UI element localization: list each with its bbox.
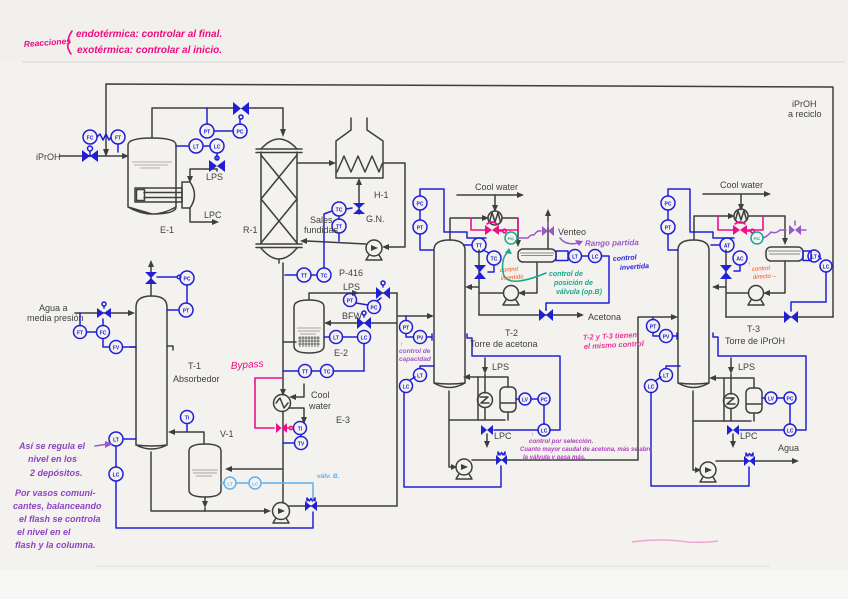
svg-text:Rango partida: Rango partida (585, 238, 639, 248)
svg-text:G.N.: G.N. (366, 214, 385, 224)
svg-text:PC: PC (184, 277, 191, 283)
instrument PT T-3 feed (647, 317, 660, 333)
pump P-416 (366, 240, 382, 260)
svg-text:Cool water: Cool water (720, 180, 763, 190)
instrument PT T-2 top (413, 210, 427, 234)
svg-text:PV: PV (417, 336, 424, 342)
wire: E-1 vapor to R-1 (152, 108, 286, 138)
instrument PT T-1 (167, 303, 193, 317)
instrument TC T-2 reflux (487, 251, 501, 272)
svg-text:H-1: H-1 (374, 190, 389, 200)
svg-text:capacidad: capacidad (399, 356, 432, 363)
svg-text:LPS: LPS (492, 362, 509, 372)
instrument PC T-2 pot (538, 393, 550, 424)
note control de capacidad (399, 342, 432, 363)
instrument LC E-2 (343, 331, 371, 372)
valve LPC T-3 (727, 425, 739, 435)
svg-text:TC: TC (336, 208, 343, 214)
svg-text:TC: TC (324, 370, 331, 376)
wire: condenser bypass T-2 (471, 218, 518, 230)
svg-text:E-1: E-1 (160, 225, 174, 235)
svg-text:PIC: PIC (508, 236, 515, 241)
svg-text:LC: LC (252, 482, 259, 487)
svg-text:flash y la columna.: flash y la columna. (15, 540, 96, 550)
furnace H-1 (336, 118, 383, 178)
svg-text:LPC: LPC (740, 431, 758, 441)
instrument PC T-1 (180, 271, 194, 303)
wire: T-1 overhead vent (148, 260, 154, 296)
svg-text:LC: LC (592, 255, 599, 261)
wire: iPrOH feed line (60, 153, 129, 159)
wire: V-1 pump discharge riser / T-2 feed (288, 293, 434, 506)
wire: T-3 drum to reflux pump (763, 261, 785, 296)
instrument LT flash aux (224, 477, 236, 489)
wire: condenser to reflux drum T-2 (502, 218, 521, 247)
svg-text:LPS: LPS (206, 172, 223, 182)
wire: T-2 level to bottoms valve (404, 392, 501, 487)
svg-text:Cool: Cool (311, 390, 330, 400)
wire: V-1 vapor to T-1 (168, 429, 204, 444)
svg-text:V-1: V-1 (220, 429, 234, 439)
instrument LC E-1 (203, 139, 224, 157)
instrument TT G.N. (332, 216, 346, 241)
instrument LC T-3 bottom (645, 377, 662, 393)
svg-text:Venteo: Venteo (558, 227, 586, 237)
valve venteo T-2 (542, 222, 554, 236)
svg-text:TT: TT (301, 274, 307, 280)
valve G.N. (353, 203, 365, 214)
valve LPS E-1 (209, 156, 225, 172)
note reacciones header (23, 31, 72, 54)
pump V-1 bottoms (273, 503, 290, 524)
svg-text:Cuanto mayor caudal de acetona: Cuanto mayor caudal de acetona, más se a… (520, 447, 653, 453)
svg-text:PT: PT (650, 325, 656, 331)
wire: T-3 overhead to condenser (694, 213, 735, 240)
reflux drum T-3 (766, 247, 803, 261)
note endotermica (76, 29, 222, 40)
pump T-2 bottoms (456, 459, 472, 479)
svg-text:fundidas: fundidas (304, 225, 339, 235)
flash drum V-1 (189, 444, 221, 497)
note por vasos comunicantes (13, 488, 102, 550)
wire: T-2 overhead to condenser (450, 215, 489, 240)
wire: cool water T-2 (457, 192, 524, 212)
wire: H-1 outlet to salt pump (382, 163, 405, 250)
instrument FC feed (83, 130, 97, 144)
instrument PIC split-range T-2 (505, 232, 517, 244)
instrument FC agua (97, 319, 110, 347)
wire: G.N. fuel line (356, 178, 362, 214)
condenser T-3 (734, 209, 748, 223)
column T-1 (130, 296, 173, 449)
svg-text:R-1: R-1 (243, 225, 258, 235)
instrument LT T-3 bottom (660, 366, 681, 382)
svg-text:Acetona: Acetona (588, 312, 621, 322)
valve venteo T-3 (789, 221, 806, 235)
svg-text:Torre de iPrOH: Torre de iPrOH (725, 336, 785, 346)
svg-text:TT: TT (476, 244, 482, 250)
valve T-3 reflux (720, 265, 732, 279)
valve agua feed (97, 302, 111, 318)
svg-text:PC: PC (237, 130, 244, 136)
instrument PC E-1 (233, 119, 247, 138)
svg-text:válv. B.: válv. B. (317, 473, 340, 480)
note control directo T-3 (748, 262, 777, 281)
svg-text:control de: control de (549, 271, 583, 278)
svg-text:LT: LT (417, 374, 423, 380)
valve iPrOH feed (82, 146, 98, 162)
wire: T-3 bottoms to pump (693, 421, 701, 473)
svg-text:Agua: Agua (778, 443, 799, 453)
svg-text:LT: LT (113, 438, 119, 444)
svg-text:P-416: P-416 (339, 268, 363, 278)
instrument TT R-1 bottoms (285, 268, 311, 282)
wire: LPC from T-2 reboiler (484, 434, 490, 448)
wire: T-1 bottoms to pump (151, 452, 271, 514)
svg-text:Bypass: Bypass (230, 359, 263, 372)
valve flash bottoms (M) (305, 498, 317, 511)
svg-text:TT: TT (302, 370, 308, 376)
instrument PC T-2 top (413, 196, 427, 210)
reboiler T-3 (724, 394, 739, 409)
instrument FV agua (110, 341, 137, 354)
svg-text:T-2: T-2 (505, 328, 518, 338)
svg-text:FV: FV (113, 346, 120, 352)
column T-3 (678, 240, 709, 388)
instrument LC T-2 lpc (494, 424, 550, 436)
instrument LC T-2 bottom (400, 377, 416, 393)
wire: T-1 level to flash valve (116, 481, 313, 528)
note rango partida (560, 238, 639, 248)
valve T-2 bottoms (M) (496, 452, 507, 465)
wire: signal to venteo valve T-2 (517, 231, 541, 238)
svg-text:LPS: LPS (343, 282, 360, 292)
instrument AC T-3 reflux (733, 251, 747, 271)
svg-text:FT: FT (77, 331, 83, 337)
instrument TI E-3 out (294, 422, 307, 435)
instrument LV T-3 pot (762, 392, 784, 404)
svg-text:Así se regula el: Así se regula el (18, 441, 86, 451)
svg-text:iPrOH: iPrOH (792, 99, 817, 109)
svg-text:LT: LT (227, 482, 232, 487)
svg-text:LT: LT (333, 336, 339, 342)
wire: T-3 drum level (791, 251, 826, 311)
instrument LT E-2 (324, 331, 343, 344)
reflux pump T-2 (503, 286, 519, 306)
svg-text:Por vasos comuni-: Por vasos comuni- (15, 488, 96, 498)
wire: LPS from E-2 (309, 290, 397, 300)
wire: T-2 bottoms to pump (449, 420, 457, 470)
svg-text:TC: TC (321, 274, 328, 280)
instrument TC R-1 bottoms (311, 268, 331, 282)
svg-text:Sales: Sales (310, 215, 333, 225)
svg-text:↑: ↑ (748, 262, 751, 268)
valve LPS E-2 (376, 281, 390, 299)
instrument PT E-1 (200, 108, 233, 138)
wire: signal to venteo valve T-3 (763, 230, 786, 238)
pink smudge bottom (632, 540, 718, 542)
wire: acetona product line (479, 312, 584, 318)
wire: agua product line (716, 458, 799, 464)
svg-text:LC: LC (648, 385, 655, 391)
valve T-2 reflux (474, 265, 486, 279)
instrument PC T-3 top (661, 196, 675, 210)
wire: T-3 pressure control to condenser bypass valve (668, 189, 734, 250)
svg-text:E-3: E-3 (336, 415, 350, 425)
svg-text:LT: LT (572, 255, 578, 261)
svg-text:control de: control de (399, 348, 431, 355)
instrument LV T-2 pot (516, 393, 538, 405)
svg-text:LT: LT (663, 374, 669, 380)
svg-text:↑: ↑ (496, 263, 499, 269)
instrument LT T-2 drum (569, 250, 582, 263)
svg-text:PC: PC (541, 398, 548, 404)
valve iPrOH recycle (784, 311, 798, 323)
wire: R-1 to H-1 (297, 160, 336, 166)
svg-text:la válvula y pasa más.: la válvula y pasa más. (523, 455, 586, 461)
scan fold line bottom (95, 565, 770, 567)
wire: E-2 process stub (283, 341, 296, 343)
instrument TT E-2 loop (299, 365, 312, 378)
instrument TC G.N. (332, 202, 352, 216)
instrument LC T-3 lpc (740, 424, 796, 436)
instrument PT T-2 feed (400, 316, 413, 334)
instrument AT T-3 reflux (711, 238, 734, 252)
svg-text:LV: LV (522, 398, 529, 404)
wire: T-2 reflux and product riser (465, 250, 503, 315)
wire: T-3 level to bottoms valve (651, 393, 749, 487)
wire: R-1 bottoms to E-2/E-3/V-1 (225, 263, 286, 503)
svg-text:PT: PT (347, 299, 353, 305)
svg-text:PT: PT (417, 226, 423, 232)
wire: LPC condensate from E-1 heater (190, 208, 219, 225)
svg-text:exotérmica: controlar al inici: exotérmica: controlar al inicio. (77, 45, 222, 56)
heat exchanger E-3 (274, 395, 291, 412)
wire: condenser bypass T-3 (718, 216, 763, 230)
reboiler T-2 (478, 393, 493, 408)
svg-text:posición de: posición de (553, 280, 593, 287)
pump T-3 bottoms (700, 462, 716, 482)
svg-text:Torre de acetona: Torre de acetona (470, 339, 538, 349)
valve BFW (357, 311, 371, 329)
svg-text:T-1: T-1 (188, 361, 201, 371)
instrument LT E-1 (176, 139, 203, 153)
wire: cool water to E-3 (289, 384, 304, 400)
instrument LT T-1 (109, 432, 136, 446)
note control de posicion (503, 248, 603, 296)
reflux drum T-2 (518, 249, 556, 262)
instrument PT LPS (344, 293, 357, 307)
valve condenser bypass T-3 (733, 222, 754, 235)
svg-text:LC: LC (214, 145, 221, 151)
instrument TV E-3 (283, 435, 308, 450)
wire: venteo line T-2 (545, 209, 551, 249)
note exotermica (77, 45, 222, 56)
instrument TC E-2 loop (321, 365, 334, 378)
wire: cool water from E-3 (289, 408, 307, 424)
wire: LPS to T-2 reboiler (482, 358, 488, 393)
valve LPC T-2 (481, 425, 493, 435)
valve acetona product (539, 309, 553, 321)
wire: E-2 temperature loop (283, 370, 364, 372)
svg-text:LC: LC (823, 265, 830, 271)
instrument FT feed (111, 130, 125, 144)
svg-text:LT: LT (193, 145, 199, 151)
note valvula B (317, 473, 340, 480)
valve T-1 vent (145, 272, 181, 284)
svg-text:LV: LV (768, 397, 775, 403)
svg-text:LPC: LPC (494, 431, 512, 441)
wire: V-1 bottoms (202, 497, 208, 511)
svg-text:el nivel en el: el nivel en el (17, 527, 71, 537)
svg-text:BFW: BFW (342, 311, 363, 321)
instrument LT T-2 bottom (414, 366, 435, 382)
instrument LC T-3 drum (820, 260, 832, 272)
svg-text:E-2: E-2 (334, 348, 348, 358)
svg-text:TV: TV (298, 442, 305, 448)
svg-text:AT: AT (724, 244, 730, 250)
svg-text:PC: PC (417, 202, 424, 208)
instrument LT T-3 drum (808, 250, 820, 262)
svg-text:FT: FT (115, 136, 121, 142)
valve T-3 bottoms (M) (744, 453, 755, 466)
wire: T-2 drum to reflux pump (518, 262, 537, 296)
valve condenser bypass T-2 (485, 222, 506, 235)
svg-text:control por selección.: control por selección. (529, 438, 594, 445)
reactor R-1 (256, 139, 302, 263)
instrument PC LPS (356, 298, 381, 314)
svg-text:PT: PT (204, 130, 210, 136)
svg-text:PT: PT (665, 226, 671, 232)
valve E-1 vapor control (233, 102, 249, 119)
instrument LC flash aux (249, 477, 261, 489)
svg-text:endotérmica: controlar al fina: endotérmica: controlar al final. (76, 29, 222, 40)
svg-text:iPrOH: iPrOH (36, 152, 61, 162)
wire: flash level aux signal (221, 483, 313, 499)
svg-text:Cool water: Cool water (475, 182, 518, 192)
instrument PIC split-range T-3 (751, 232, 763, 244)
svg-text:TI: TI (185, 416, 190, 422)
svg-text:PIC: PIC (754, 236, 761, 241)
svg-text:LC: LC (403, 385, 410, 391)
svg-text:a reciclo: a reciclo (788, 109, 822, 119)
wire: T-3 reflux and recycle line (712, 250, 833, 317)
svg-text:LC: LC (361, 336, 368, 342)
svg-text:2 depósitos.: 2 depósitos. (29, 468, 83, 478)
wire: T-2 drum level (546, 251, 609, 310)
note control por seleccion (520, 432, 653, 461)
instrument TT T-2 reflux (464, 238, 489, 253)
wire: salt return to R-1 (300, 238, 366, 244)
flash pot T-2 reboiler (500, 387, 516, 412)
wire: T-3 reboiler loop (693, 375, 754, 421)
heater bundle of E-1 (135, 182, 195, 208)
wire: TC cascade to G.N. TC (324, 211, 332, 268)
svg-text:LT: LT (811, 255, 817, 261)
svg-text:LC: LC (787, 429, 794, 435)
column T-2 (434, 240, 465, 388)
svg-text:AC: AC (736, 257, 744, 263)
note T-2 y T-3 mismo control (583, 330, 645, 351)
svg-text:FC: FC (100, 331, 107, 337)
wire: BFW to E-2 (324, 320, 397, 326)
wire: T-2 pressure control to condenser bypass valve (420, 189, 486, 250)
instrument LC T-1 (109, 446, 123, 481)
instrument TI T-1 (181, 411, 194, 432)
svg-text:LC: LC (541, 429, 548, 435)
svg-text:PC: PC (665, 202, 672, 208)
svg-text:TI: TI (298, 427, 303, 433)
svg-text:Absorbedor: Absorbedor (173, 374, 220, 384)
instrument PC T-3 pot (784, 392, 796, 424)
svg-text:PT: PT (183, 309, 189, 315)
svg-text:FC: FC (87, 136, 94, 142)
wire: T-2 bottoms to T-3 feed (472, 314, 678, 460)
condenser T-2 (488, 211, 502, 225)
instrument PT T-3 top (661, 210, 675, 234)
vessel E-1 (128, 138, 176, 214)
wire: condenser to reflux drum T-3 (748, 216, 788, 245)
note bypass (230, 359, 263, 372)
note control invertida blue (613, 254, 650, 272)
wire: T-3 pot pressure link (713, 333, 806, 430)
note asi se regula (18, 441, 113, 478)
svg-text:PC: PC (371, 306, 378, 312)
svg-text:nivel en los: nivel en los (28, 454, 77, 464)
wire: LPC from T-3 reboiler (730, 434, 736, 448)
svg-text:LPS: LPS (738, 362, 755, 372)
svg-text:cantes, balanceando: cantes, balanceando (13, 501, 102, 511)
svg-text:el flash se controla: el flash se controla (19, 514, 101, 524)
instrument LC T-2 drum (589, 250, 602, 263)
svg-text:LC: LC (113, 473, 120, 479)
svg-text:PV: PV (663, 335, 670, 341)
svg-text:TC: TC (491, 257, 498, 263)
svg-text:válvula (op.B): válvula (op.B) (556, 289, 603, 296)
svg-text:LPC: LPC (204, 210, 222, 220)
wire: T-2 pot pressure link (467, 334, 560, 430)
wire: iPrOH recycle line top/right (103, 84, 833, 317)
wire: E-3 bypass (255, 378, 283, 428)
valve E-3 bypass (276, 423, 293, 433)
svg-text:water: water (308, 401, 331, 411)
instrument PV T-3 feed (653, 330, 677, 343)
steam generator E-2 (294, 300, 324, 353)
svg-text:PT: PT (403, 326, 409, 332)
wire: FC-FT signal (97, 134, 118, 152)
note control invertido T-2 (496, 263, 525, 282)
wire: agua a media presion feed (75, 310, 135, 316)
reflux pump T-3 (748, 286, 764, 306)
wire: T-2 reboiler loop (449, 374, 508, 420)
svg-text:PC: PC (787, 397, 794, 403)
wire: LPS to T-3 reboiler (728, 358, 734, 394)
svg-text:T-3: T-3 (747, 324, 760, 334)
instrument FT agua (74, 313, 97, 339)
flash pot T-3 reboiler (746, 388, 762, 413)
instrument PV T-2 feed (406, 331, 432, 344)
svg-text:Agua a: Agua a (39, 303, 68, 313)
scan fold line top (22, 61, 845, 63)
wire: cool water T-3 (703, 191, 771, 211)
svg-text:media presión: media presión (27, 313, 84, 323)
wire: LPS steam to E-1 heater (187, 169, 217, 183)
